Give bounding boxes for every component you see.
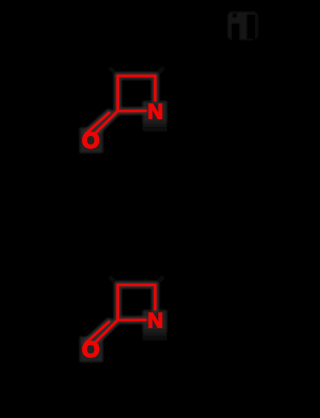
svg-text:O: O: [82, 128, 100, 153]
bottom bond C2-N: [118, 110, 146, 113]
svg-text:O: O: [82, 337, 100, 362]
label box O1: [80, 128, 104, 154]
svg-text:N: N: [148, 99, 164, 123]
label box O2: [80, 337, 104, 363]
dim bond stub up-right: [155, 68, 163, 76]
dim bond stub up-left: [111, 69, 118, 76]
ring bonds: [118, 76, 156, 111]
dim bond stub up-right: [155, 277, 163, 285]
label box N2: [143, 310, 168, 341]
molecule panel 2: [80, 277, 168, 362]
ring bonds: [118, 285, 156, 320]
C=O double bond: [95, 320, 118, 343]
bottom bond C2-N: [118, 319, 146, 322]
dim bond stub up-left: [111, 278, 118, 285]
bond halo: [86, 76, 155, 134]
badge (top-right faint icon): [228, 12, 259, 41]
bond halo: [86, 285, 155, 343]
label box N1: [143, 101, 168, 132]
C=O double bond: [95, 111, 118, 134]
molecule panel 1: [80, 68, 168, 153]
svg-text:N: N: [148, 308, 164, 332]
